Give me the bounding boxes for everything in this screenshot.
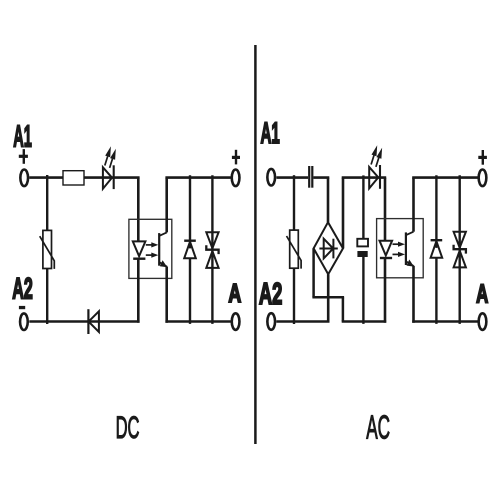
wire emitter vertical (AC) <box>412 266 415 323</box>
bridge rectifier V5 diamond <box>314 222 343 274</box>
wire opto input vertical upper (DC) <box>137 178 140 242</box>
wire A2 to bridge bottom vertex (AC) <box>327 274 330 321</box>
wire opto input vertical lower (AC) <box>384 258 387 323</box>
diode V4 cathode bar <box>87 309 89 334</box>
plus sign above A terminal (DC) <box>232 150 240 165</box>
wire output top rail (DC) <box>165 176 230 179</box>
opto U1 internal LED cathode bar <box>133 258 145 260</box>
terminal A output (AC) <box>479 313 487 330</box>
capacitor C1 right plate <box>311 166 313 188</box>
opto U2 coupling arrow 2 <box>393 252 406 257</box>
diode V7 triangle <box>431 241 443 258</box>
optocoupler U1 box <box>129 219 172 278</box>
svg-text:A: A <box>476 279 488 309</box>
terminal plus output (AC) <box>479 170 487 187</box>
terminal A output (DC) <box>232 313 240 330</box>
wire A2 rail (AC) <box>276 320 329 323</box>
TVS V3 zener bar <box>206 245 218 254</box>
capacitor C2 top plate <box>357 239 368 247</box>
TVS V3 top triangle <box>206 232 218 248</box>
minus sign under A2 (DC) <box>19 306 25 309</box>
wire filter cap branch lower (AC) <box>362 257 364 324</box>
opto U1 phototransistor emitter <box>159 260 167 267</box>
wire opto input vertical lower (DC) <box>137 259 140 323</box>
plus sign under A1 (DC) <box>19 149 28 164</box>
wire varistor branch lower (AC) with tick <box>293 268 295 324</box>
opto U2 phototransistor base bar <box>405 232 407 265</box>
wire A1 rail to capacitor (AC) <box>277 176 309 179</box>
wire output bottom rail (AC) <box>412 320 477 323</box>
wire varistor branch lower (DC) with junction tick <box>46 269 48 325</box>
capacitor C2 bottom plate <box>357 251 367 257</box>
varistor R3 body <box>290 230 299 268</box>
wire DC+ top rail (AC) through LED <box>342 176 387 179</box>
svg-text:A: A <box>228 279 241 308</box>
resistor R1 <box>63 171 84 185</box>
opto U2 coupling arrow 1 <box>393 242 406 247</box>
wire opto input vertical upper (AC) <box>384 178 387 241</box>
svg-text:A1: A1 <box>13 120 32 154</box>
LED V6 emission arrow 2 <box>376 148 382 167</box>
diode V2 cathode bar <box>184 239 196 241</box>
opto U2 internal LED triangle <box>380 241 393 256</box>
diode V7 apex stub <box>435 241 437 248</box>
bridge V5 inner diode triangle <box>324 239 334 259</box>
wire diode branch upper (AC) with tick <box>435 175 437 240</box>
capacitor C1 left plate <box>308 166 310 188</box>
terminal A2 (AC) <box>267 313 275 330</box>
TVS V8 zener bar <box>454 245 466 254</box>
plus sign above output terminal (AC) <box>478 150 487 165</box>
wire varistor branch upper (AC) with tick <box>293 175 295 230</box>
diode V4 triangle <box>89 311 99 332</box>
TVS V8 bottom triangle <box>454 251 466 268</box>
terminal A2 (DC) <box>20 313 28 330</box>
bridge V5 inner diode wire <box>319 248 337 250</box>
bridge V5 inner diode cathode bar <box>332 239 334 259</box>
opto U1 coupling arrow 1 <box>146 242 159 247</box>
opto U2 phototransistor collector <box>406 232 414 236</box>
wire diode branch upper (DC) with tick <box>189 175 191 241</box>
varistor R2 diagonal <box>40 236 55 269</box>
TVS V8 top triangle <box>454 232 466 248</box>
wire filter cap branch upper (AC) with tick <box>362 175 364 238</box>
opto U1 phototransistor collector <box>159 232 167 236</box>
terminal A1 (AC) <box>267 169 275 186</box>
wire jog right leg down <box>342 297 345 321</box>
opto U2 phototransistor emitter <box>406 260 414 267</box>
wire capacitor to bridge corner (AC) <box>313 176 329 179</box>
wire bridge right vertex to top rail <box>342 178 345 249</box>
LED V6 emission arrow 1 <box>371 145 377 164</box>
wire A1 rail right segment through LED <box>84 176 140 179</box>
LED V1 cathode bar <box>113 165 115 189</box>
terminal plus output (DC) <box>232 170 240 187</box>
svg-text:AC: AC <box>366 408 390 446</box>
opto U1 phototransistor base bar <box>158 233 160 266</box>
divider line <box>254 45 257 444</box>
wire diode branch lower (AC) with tick <box>435 258 437 324</box>
LED V1 triangle <box>103 167 112 188</box>
svg-text:A1: A1 <box>261 116 280 149</box>
wire TVS branch vertical (DC) with ticks <box>211 175 213 324</box>
LED V1 emission arrow 1 <box>105 146 111 165</box>
wire emitter vertical (DC) <box>165 267 168 323</box>
wire A1 rail left segment <box>29 176 63 179</box>
svg-text:A2: A2 <box>12 273 33 307</box>
wire varistor branch upper (DC) with junction tick <box>46 175 48 230</box>
opto U2 internal LED cathode bar <box>380 257 392 259</box>
varistor R2 body <box>43 230 52 268</box>
wire A2 bottom rail (DC) <box>29 320 139 323</box>
LED V1 emission arrow 2 <box>110 149 116 168</box>
diode V7 cathode bar <box>431 239 443 241</box>
wire diode branch lower (DC) with tick <box>189 258 191 324</box>
wire bridge left vertex leg <box>312 248 315 297</box>
optocoupler U2 box <box>377 219 424 278</box>
terminal A1 (DC) <box>20 170 28 187</box>
wire collector vertical (DC) <box>165 178 168 233</box>
LED V6 triangle <box>369 167 378 188</box>
wire collector vertical (AC) <box>412 178 415 232</box>
wire TVS branch vertical (AC) with ticks <box>459 175 461 324</box>
svg-text:DC: DC <box>116 411 140 446</box>
opto U1 coupling arrow 2 <box>146 253 159 258</box>
TVS V3 bottom triangle <box>206 251 218 268</box>
wire output top rail (AC) <box>412 176 477 179</box>
wire jog horizontal <box>312 296 344 299</box>
LED V6 cathode bar <box>379 165 381 189</box>
wire output bottom rail (DC) <box>165 320 230 323</box>
opto U1 internal LED triangle <box>133 241 146 256</box>
wire internal bottom rail (AC) <box>342 320 387 323</box>
svg-text:A2: A2 <box>259 278 283 312</box>
diode V2 apex stub <box>189 242 191 249</box>
varistor R3 diagonal <box>287 236 302 269</box>
diode V2 triangle <box>184 242 196 259</box>
